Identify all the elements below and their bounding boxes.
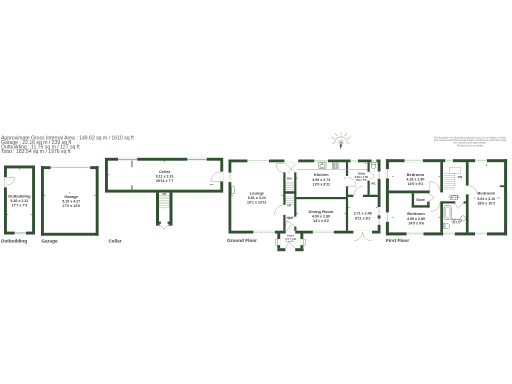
gf right room text [354,212,372,221]
gf wc door [370,172,375,179]
compass [332,132,351,143]
garage right wall [96,166,99,236]
svg-text:19'1 x 13'11: 19'1 x 13'11 [247,200,267,204]
gf hall-dining door arc [286,217,295,227]
gf entrance opening [284,159,298,162]
gf bottom windows [253,231,333,234]
ff right wall stub [500,185,504,187]
gf dim ticks [231,162,377,213]
svg-text:Produced by xxxx Media: Produced by xxxx Media [457,144,484,147]
svg-text:14'0 x 9'2: 14'0 x 9'2 [408,182,424,186]
gf stair mid landing wall [283,191,296,194]
svg-text:4.50 x 2.89: 4.50 x 2.89 [407,217,425,221]
svg-text:First Floor: First Floor [386,238,409,243]
ff store door arc [428,194,434,201]
svg-text:4.28 x 2.80: 4.28 x 2.80 [406,178,424,182]
cellar right door opening [220,172,223,182]
gf hall left wall upper [283,172,285,204]
ff stairs void outline [449,167,460,173]
svg-text:Outbuilding: Outbuilding [8,194,31,199]
ff top windows [405,159,487,162]
header area text [1,135,134,155]
cellar stair treads [159,195,170,209]
gf french door arcs [354,232,371,241]
svg-text:Lounge: Lounge [250,190,265,195]
garage bottom wall [41,233,99,236]
gf porch opening in bottom wall [286,231,296,234]
svg-text:Utility: Utility [358,171,366,175]
ff V2 wall lower [466,194,469,232]
ff top wall [386,159,507,162]
gf wc left wall [368,162,370,172]
svg-text:Bedroom: Bedroom [407,211,425,216]
ff bottom windows [407,232,487,235]
gf right wall [378,160,381,234]
cellar top window 1 [118,158,137,161]
ff V1 wall upper [440,162,443,192]
gf utility-rightroom door arc [354,186,363,195]
gf french door opening [353,231,372,234]
ff stair treads [444,173,455,189]
gf kitchen-dining wall [296,197,346,199]
svg-text:UP: UP [287,204,291,208]
svg-text:4.00 x 2.80: 4.00 x 2.80 [312,215,330,219]
svg-text:6'0 x 3'7: 6'0 x 3'7 [286,241,295,243]
ff toilet [443,223,449,228]
svg-text:17'0 x 14'0: 17'0 x 14'0 [62,204,80,208]
svg-text:S: S [339,140,342,145]
ff bathroom text [451,218,462,225]
svg-text:Store: Store [416,198,425,202]
ff H2 wall landing/bath [440,201,455,203]
gf porch side windows [277,239,280,245]
ff bedroom3 text [477,190,495,205]
svg-text:5.81 x 4.24: 5.81 x 4.24 [248,196,266,200]
garage door line [51,167,91,168]
outbuilding bottom window [15,232,26,235]
cellar room text [156,169,174,183]
gf hall left wall lower [283,215,285,231]
gf entrance door leaves [285,163,296,173]
outbuilding door arc [7,178,15,186]
garage top wall stubs [41,166,51,169]
svg-text:17'7 x 7'3: 17'7 x 7'3 [12,203,28,207]
gf porch right wall [300,233,303,248]
gf stove [332,163,338,168]
gf kitchen text [312,172,330,187]
ff bedroom2 door arc [430,202,440,211]
svg-text:29'11 x 7'7: 29'11 x 7'7 [156,179,174,183]
gf dining text [309,209,334,223]
svg-text:18'6 x 10'2: 18'6 x 10'2 [477,202,495,206]
svg-text:Bedroom: Bedroom [407,172,425,177]
ff dim ticks [392,164,500,217]
ff bathroom door arc [455,203,463,209]
ff right wall [504,159,507,235]
gf right wall windows [378,172,381,225]
svg-text:Cellar: Cellar [109,239,122,244]
gf top wall [229,160,381,163]
svg-text:8'11 x 8'2: 8'11 x 8'2 [355,217,371,221]
gf hall right wall [294,172,296,216]
svg-text:14'9 x 9'6: 14'9 x 9'6 [408,222,424,226]
gf wc toilet [371,163,376,169]
ff H1 wall bedroom1 bottom [389,191,430,194]
ff bedroom1 door arc [430,182,440,192]
gf vertical wall dining/right-room lower [346,186,348,230]
ff store right wall [427,202,429,208]
svg-text:Ground Floor: Ground Floor [227,238,257,243]
disclaimer text [434,136,507,147]
svg-text:6'6 x 5'7: 6'6 x 5'7 [453,223,462,225]
ff bedroom3 door arc [469,186,477,194]
svg-text:1.83 x 1.10: 1.83 x 1.10 [285,238,297,240]
svg-text:Bedroom: Bedroom [478,190,496,195]
svg-text:6'9 x 5'5: 6'9 x 5'5 [356,178,367,182]
svg-text:6'6 x 6'0: 6'6 x 6'0 [450,199,459,201]
ff bedroom1 text [406,172,424,186]
ff store left wall [412,193,414,207]
gf right-room top wall segs [348,195,353,197]
outbuilding room text [8,194,31,208]
svg-text:5.19 x 4.27: 5.19 x 4.27 [62,200,80,204]
ff left wall windows [386,169,389,222]
svg-text:Cellar: Cellar [159,169,171,174]
garage dim ticks [44,192,96,196]
outbuilding outer walls [4,166,35,235]
gf left wall seat fixture [232,187,235,194]
ff left wall [386,159,389,235]
svg-text:DN: DN [458,175,463,179]
gf stairs down flight [286,182,295,204]
svg-text:Garage: Garage [64,194,79,199]
ff bath tub [444,206,451,220]
ff V1 wall lower [440,202,443,232]
svg-text:Porch: Porch [287,236,294,238]
cellar stem feet [159,222,161,226]
garage left wall [41,166,44,236]
cellar stair stem right wall [170,193,173,226]
outbuilding door opening left wall [4,177,7,187]
gf porch door arcs [287,240,296,249]
ff V2 wall upper [466,162,469,185]
svg-text:5.64 x 3.10: 5.64 x 3.10 [477,197,495,201]
svg-text:Outbuilding: Outbuilding [1,239,27,244]
gf porch text [285,236,297,244]
gf kitchen counter line [297,168,368,170]
svg-text:9.11 x 2.31: 9.11 x 2.31 [156,175,174,179]
ff bottom wall [386,232,507,235]
cellar outer walls [105,158,223,193]
svg-text:UP: UP [162,192,166,196]
svg-text:Garage: Garage [41,239,58,244]
svg-text:13'0 x 8'11: 13'0 x 8'11 [313,183,331,187]
gf vertical wall kitchen/utility upper [346,162,348,176]
svg-text:Hall: Hall [286,216,292,220]
gf left wall [229,160,232,234]
svg-text:13'1 x 9'2: 13'1 x 9'2 [313,219,329,223]
outbuilding dim ticks [7,168,32,214]
ff landing text [448,195,460,201]
cellar stair stem left wall [156,193,159,226]
gf bottom wall [229,231,381,234]
gf vestibule-lounge door arc [276,163,285,173]
ff store bottom wall [412,205,430,207]
svg-text:DN: DN [287,176,292,180]
svg-text:2.06 x 1.65: 2.06 x 1.65 [355,175,369,179]
gf porch bottom stubs [277,248,285,251]
gf top windows [247,159,376,162]
gf utility door arc [348,178,356,186]
cellar interior partial walls [131,161,134,168]
ff basin [461,216,466,221]
svg-text:Total : 183.54 sq m / 1976 sq: Total : 183.54 sq m / 1976 sq ft [1,149,71,155]
gf left wall window [228,173,231,182]
svg-text:WC: WC [371,181,376,185]
svg-text:2.71 x 2.48: 2.71 x 2.48 [354,212,372,216]
cellar stair down-arrow [159,224,169,229]
svg-text:Kitchen: Kitchen [314,172,329,177]
gf utility text [355,171,369,182]
cellar top window 2 [187,158,207,161]
cellar dim ticks [108,161,213,185]
gf porch left wall [277,233,280,248]
svg-text:3.96 x 2.73: 3.96 x 2.73 [312,178,330,182]
gf hall-lounge door arc [274,205,284,215]
cellar right door arc [211,172,221,182]
svg-text:Dining Room: Dining Room [309,209,334,214]
gf sink unit [319,163,326,169]
gf lounge text [247,190,267,204]
garage room text [62,194,80,208]
ff bedroom2 text [407,211,425,226]
